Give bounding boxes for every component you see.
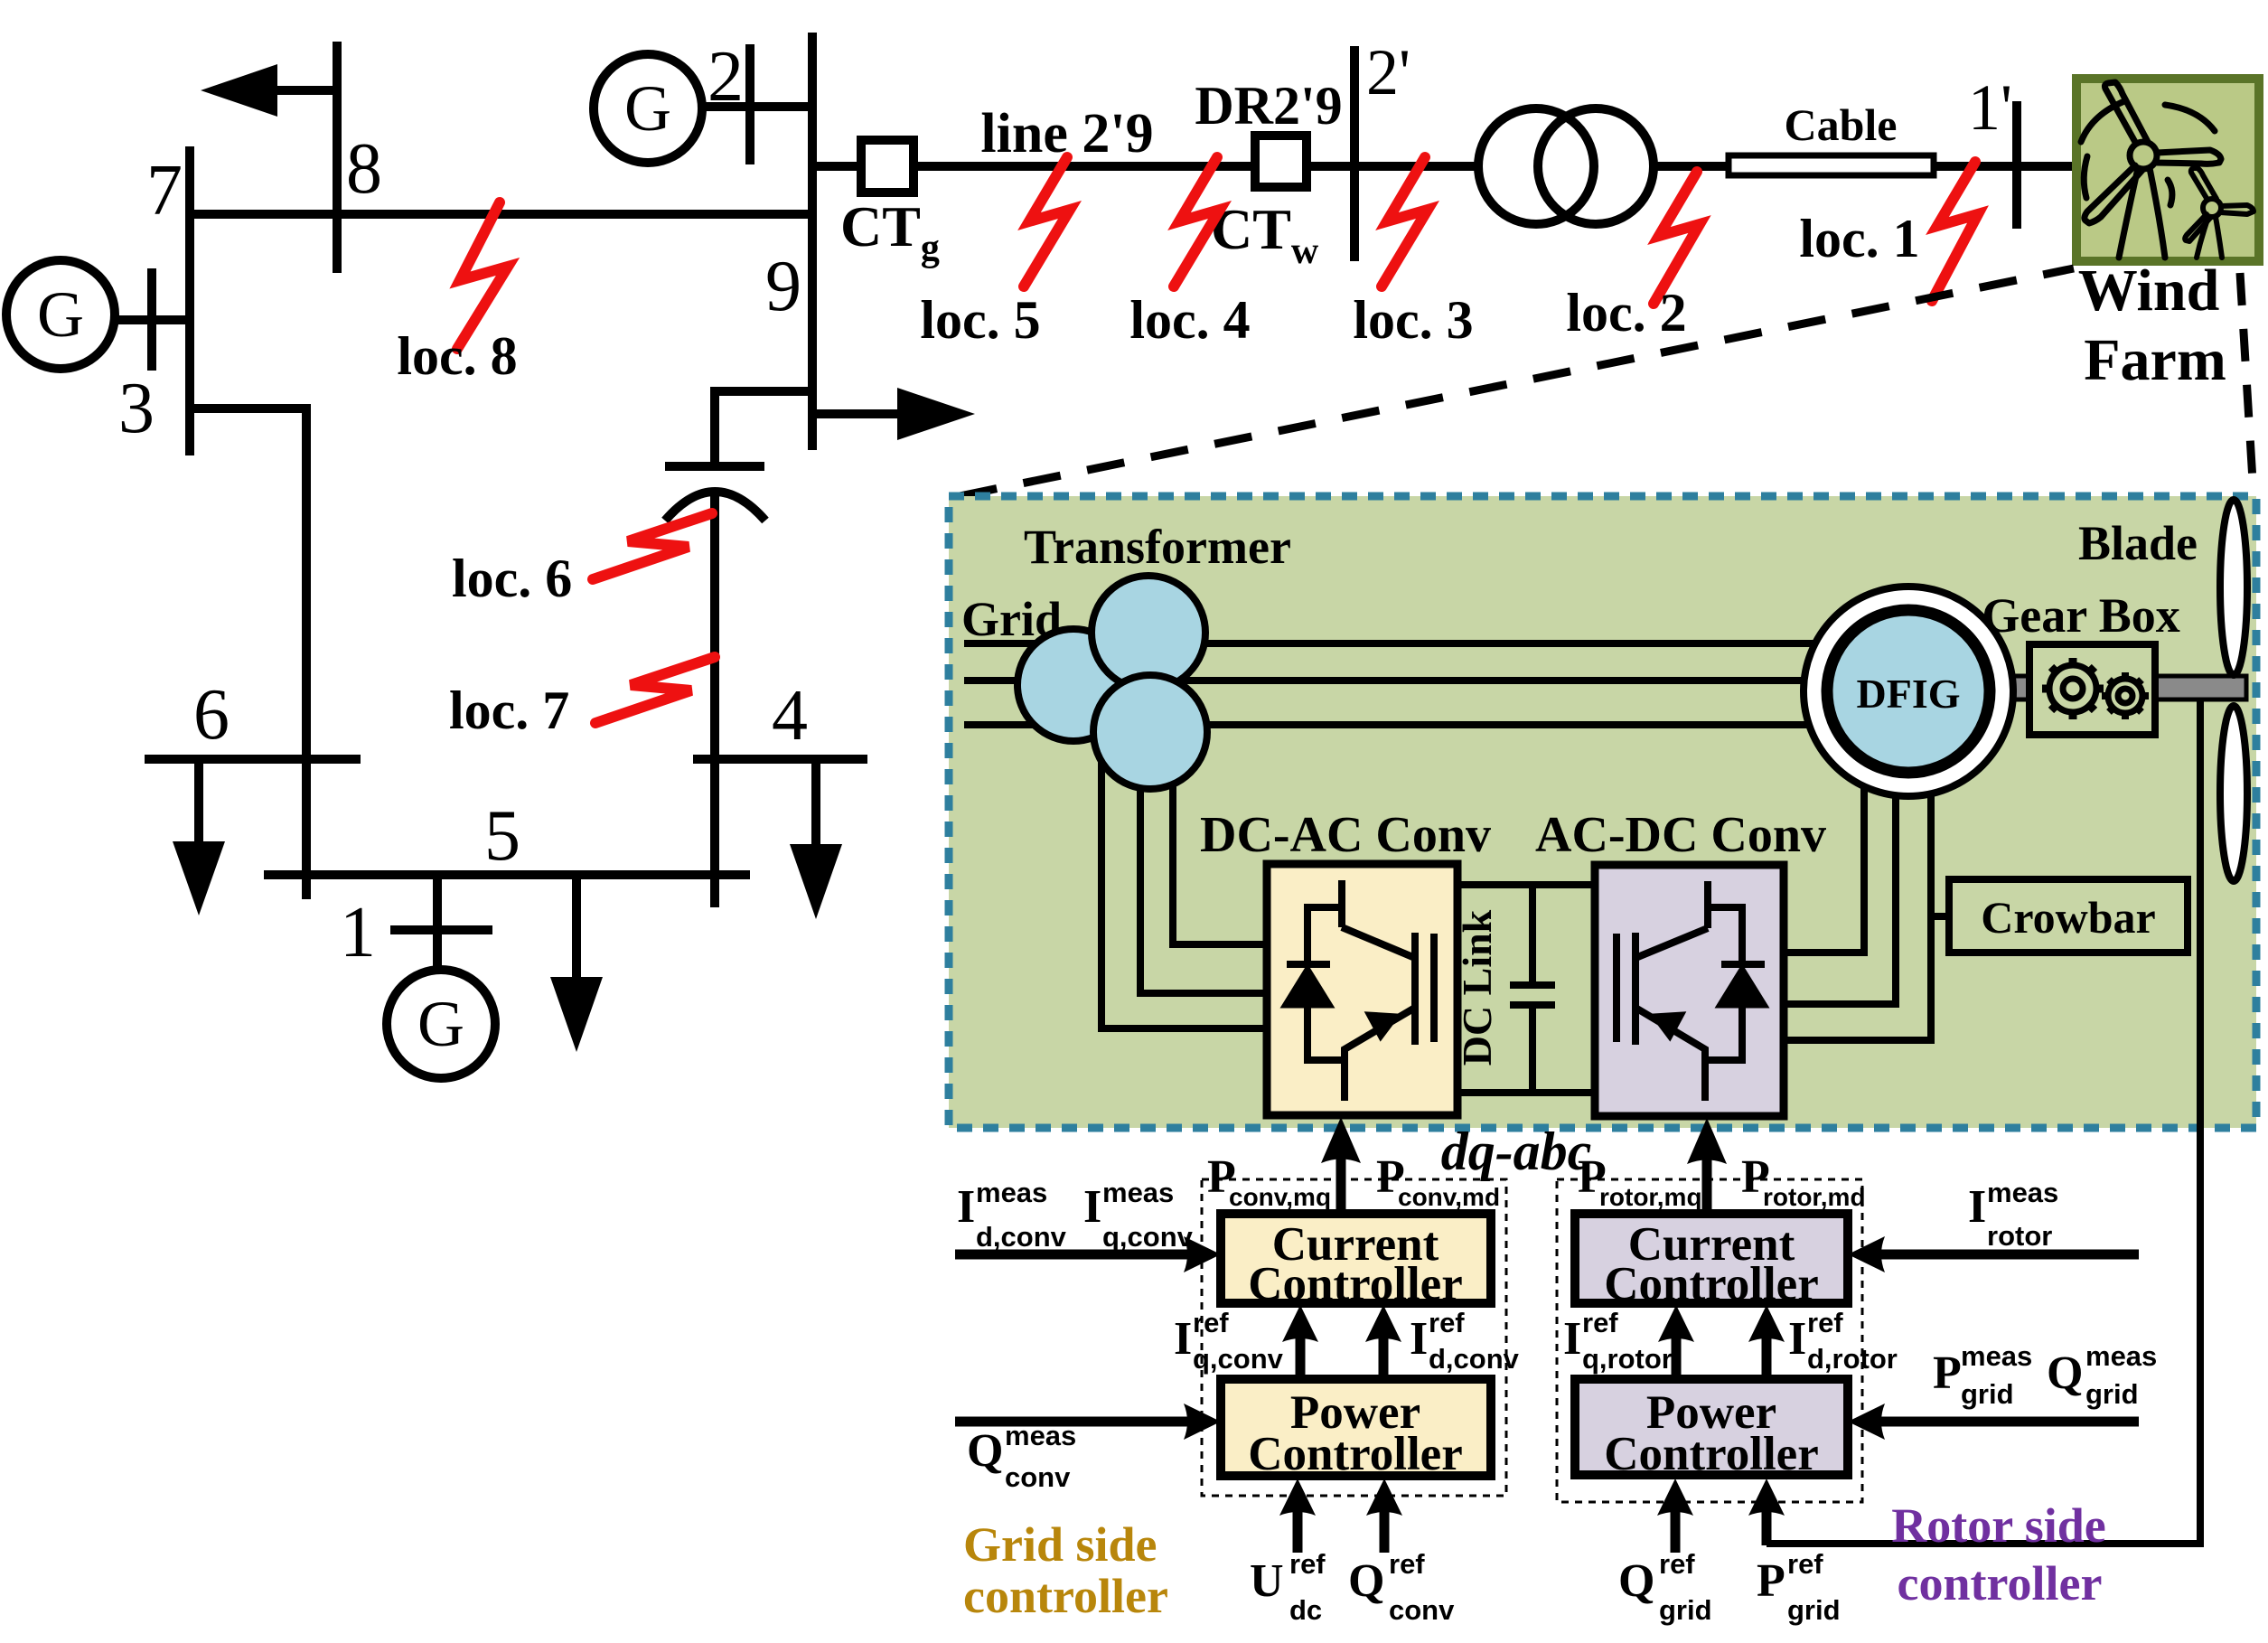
fault loc. 2 bolt (1654, 172, 1700, 304)
grid side dotted frame (1202, 1179, 1506, 1496)
dashed callout line left (960, 268, 2074, 496)
arrow Id ref rotor (1762, 1336, 1772, 1379)
generator G1 circle (387, 970, 495, 1078)
fault loc. 6 bolt (593, 513, 712, 579)
svg-text:I: I (1563, 1313, 1581, 1365)
cable symbol (1729, 155, 1934, 175)
svg-text:4: 4 (772, 676, 808, 756)
load at bus 5 wire (572, 875, 581, 979)
DFIG inner circle (1827, 610, 1990, 773)
DFIG outer circle (1804, 587, 2013, 796)
svg-text:1: 1 (340, 893, 376, 972)
arrow Pgrid ref feedback (1762, 1509, 1772, 1545)
svg-text:Cable: Cable (1785, 99, 1898, 150)
svg-text:meas: meas (1987, 1177, 2058, 1208)
bus 3 tick (147, 268, 156, 371)
DC link top rail (1457, 881, 1595, 888)
bus 1 tick (390, 925, 492, 934)
svg-text:I: I (1968, 1181, 1986, 1233)
svg-text:Controller: Controller (1604, 1258, 1818, 1310)
svg-text:U: U (1250, 1555, 1284, 1607)
crowbar stub (1931, 913, 1949, 920)
svg-text:I: I (1174, 1313, 1192, 1365)
svg-text:controller: controller (1898, 1556, 2103, 1610)
svg-text:dc: dc (1289, 1594, 1322, 1626)
svg-text:G: G (37, 278, 84, 351)
svg-text:5: 5 (484, 796, 520, 876)
svg-text:loc. 1: loc. 1 (1799, 209, 1919, 268)
bus 2' (1350, 46, 1359, 261)
svg-text:I: I (1083, 1181, 1101, 1233)
relay CTg box (861, 140, 914, 192)
wire bus9 bend to shunt (715, 391, 812, 467)
wind farm turbine large (2081, 82, 2221, 258)
svg-text:meas: meas (2085, 1340, 2157, 1372)
svg-text:meas: meas (1102, 1177, 1174, 1208)
svg-text:DR2'9: DR2'9 (1195, 76, 1342, 136)
svg-text:conv: conv (1389, 1594, 1455, 1626)
svg-text:2: 2 (708, 37, 744, 117)
svg-text:ref: ref (1289, 1548, 1326, 1580)
shunt capacitor arc plate (665, 492, 765, 521)
grid current controller box (1221, 1214, 1491, 1303)
svg-text:grid: grid (2085, 1378, 2139, 1410)
svg-text:DC Link: DC Link (1454, 909, 1500, 1066)
fault loc. 4 bolt (1174, 157, 1220, 286)
blade lower (2220, 706, 2247, 881)
fault loc. 8 bolt (457, 202, 508, 349)
DFIG rotor wire b (1784, 796, 1896, 1004)
arrow PQ meas into rotor power controller (1881, 1417, 2139, 1427)
svg-text:d,conv: d,conv (1429, 1343, 1520, 1375)
svg-text:loc. 3: loc. 3 (1353, 290, 1473, 350)
svg-text:rotor,md: rotor,md (1763, 1183, 1866, 1211)
arrow Qgrid ref (1671, 1509, 1681, 1553)
bus 8 (333, 42, 342, 273)
wire bus3 to line 3-6 (190, 408, 306, 899)
svg-text:meas: meas (976, 1177, 1047, 1208)
DC link bottom rail (1457, 1089, 1595, 1096)
svg-text:controller: controller (963, 1569, 1168, 1623)
bus 1' (2012, 101, 2021, 229)
svg-text:2': 2' (1366, 36, 1410, 108)
rotor side dotted frame (1557, 1179, 1862, 1502)
DC-AC converter box (1267, 864, 1457, 1115)
svg-text:7: 7 (146, 151, 183, 230)
svg-text:ref: ref (1429, 1307, 1465, 1338)
svg-text:loc. 7: loc. 7 (449, 681, 569, 740)
svg-text:Gear Box: Gear Box (1982, 588, 2179, 643)
svg-text:d,rotor: d,rotor (1807, 1343, 1898, 1375)
svg-text:loc. 4: loc. 4 (1129, 290, 1250, 350)
gear small (2102, 672, 2149, 719)
load at bus 4 wire (811, 759, 820, 846)
svg-text:Q: Q (967, 1425, 1003, 1477)
grid phase line c (964, 721, 1810, 728)
svg-text:I: I (957, 1181, 975, 1233)
DC link capacitor (1510, 885, 1555, 1093)
wire bus5 to bus1 (433, 875, 442, 970)
generator G2 circle (594, 54, 702, 163)
arrow controller to AC-DC (1702, 1157, 1712, 1214)
load at bus 6 arrowhead (173, 841, 225, 915)
svg-text:Blade: Blade (2078, 516, 2198, 570)
fault loc. 7 bolt (595, 657, 715, 723)
svg-text:G: G (624, 72, 671, 145)
svg-text:Q: Q (1618, 1555, 1654, 1607)
wind transformer circle top (1092, 576, 1205, 690)
svg-text:6: 6 (193, 675, 230, 755)
converter feed vertical b (1140, 741, 1267, 993)
svg-text:I: I (1410, 1313, 1428, 1365)
wire transformer to cable (1652, 162, 1729, 171)
shaft measurement line (1767, 696, 2200, 1544)
svg-text:Wind: Wind (2078, 258, 2220, 324)
load at bus 5 arrowhead (550, 977, 603, 1052)
svg-text:ref: ref (1787, 1548, 1823, 1580)
arrow Iq ref rotor (1672, 1336, 1682, 1379)
svg-text:Controller: Controller (1604, 1428, 1818, 1480)
converter feed vertical c (1101, 732, 1267, 1028)
svg-text:Farm: Farm (2084, 327, 2226, 393)
step-up transformer circles (1478, 108, 1594, 224)
arrow Id ref grid (1379, 1336, 1389, 1379)
wind farm box (2076, 79, 2259, 261)
svg-text:loc. 6: loc. 6 (452, 549, 572, 608)
arrow Iq ref grid (1296, 1336, 1306, 1379)
svg-text:Transformer: Transformer (1024, 520, 1291, 574)
arrow Id Iq meas into grid current controller (955, 1250, 1188, 1260)
DFIG rotor wire a (1784, 788, 1864, 953)
svg-text:3: 3 (118, 369, 155, 448)
svg-text:meas: meas (1005, 1420, 1076, 1451)
svg-text:Rotor side: Rotor side (1891, 1498, 2106, 1553)
wind farm turbine small (2185, 168, 2254, 258)
svg-text:DC-AC Conv: DC-AC Conv (1200, 807, 1491, 863)
svg-text:conv,md: conv,md (1398, 1183, 1500, 1211)
svg-text:d,conv: d,conv (976, 1221, 1067, 1253)
grid phase line a (964, 640, 1813, 647)
grid power controller box (1221, 1379, 1491, 1476)
svg-text:G: G (417, 988, 464, 1060)
wire shunt to bus4 to bus5 (710, 490, 719, 907)
svg-text:Controller: Controller (1248, 1258, 1462, 1310)
svg-text:q,conv: q,conv (1102, 1221, 1194, 1253)
bus 7 (185, 146, 194, 455)
wire 7-9 (190, 210, 812, 219)
svg-text:loc. 2: loc. 2 (1566, 283, 1686, 343)
DC-AC IGBT emitter arrow (1368, 1014, 1397, 1037)
shunt capacitor top plate (665, 462, 764, 471)
bus 6 (145, 755, 361, 764)
wind transformer circle left (1017, 629, 1129, 741)
DC-AC diode (1287, 961, 1330, 968)
svg-text:rotor,mq: rotor,mq (1599, 1183, 1702, 1211)
svg-text:1': 1' (1968, 71, 2012, 144)
line 2'9 wire (914, 162, 1255, 171)
svg-text:Q: Q (1348, 1555, 1384, 1607)
wire G3 to bus 3 (115, 315, 190, 324)
rotor current controller box (1575, 1214, 1848, 1303)
load at bus 9 wire (812, 409, 899, 418)
svg-text:Q: Q (2047, 1347, 2083, 1399)
arrow Qconv ref (1380, 1509, 1390, 1553)
wire bus9 to CTg (812, 162, 861, 171)
load at bus 9 arrowhead (897, 388, 975, 440)
svg-text:loc. 5: loc. 5 (920, 290, 1040, 350)
converter feed vertical a (1173, 750, 1267, 944)
fault loc. 3 bolt (1382, 157, 1428, 286)
svg-text:grid: grid (1787, 1594, 1841, 1626)
svg-text:loc. 8: loc. 8 (397, 326, 517, 386)
svg-text:P: P (1757, 1555, 1785, 1607)
load at bus 4 arrowhead (790, 844, 842, 919)
svg-text:ref: ref (1193, 1307, 1229, 1338)
svg-text:meas: meas (1961, 1340, 2032, 1372)
svg-text:ref: ref (1659, 1548, 1695, 1580)
rotor power controller box (1575, 1379, 1848, 1475)
AC-DC converter box (1595, 865, 1784, 1116)
arrow Irotor meas into rotor current controller (1881, 1250, 2139, 1260)
load at bus 6 wire (194, 759, 203, 843)
arrow Q meas into grid power controller (955, 1417, 1188, 1427)
drive shaft (2010, 676, 2246, 699)
fault loc. 5 bolt (1024, 157, 1070, 286)
svg-text:Grid side: Grid side (963, 1517, 1157, 1572)
wire cable to bus 1' (1934, 162, 2076, 171)
svg-text:rotor: rotor (1987, 1220, 2052, 1252)
wire G2 to bus 9 (702, 102, 812, 111)
svg-text:q,conv: q,conv (1193, 1343, 1284, 1375)
svg-text:P: P (1933, 1347, 1962, 1399)
svg-text:grid: grid (1961, 1378, 2014, 1410)
relay DR2'9 box (1255, 136, 1307, 187)
fault loc. 1 bolt (1932, 162, 1978, 301)
bus 5 (264, 870, 750, 879)
svg-text:AC-DC Conv: AC-DC Conv (1535, 807, 1826, 863)
dashed callout line right (2240, 273, 2254, 495)
svg-text:conv,mq: conv,mq (1229, 1183, 1331, 1211)
AC-DC IGBT emitter arrow (1654, 1014, 1682, 1037)
svg-text:ref: ref (1807, 1307, 1843, 1338)
bus 2 tick (745, 44, 754, 164)
gear box rect (2029, 644, 2155, 735)
svg-text:grid: grid (1659, 1594, 1712, 1626)
DC-AC IGBT (1307, 880, 1434, 1101)
wind transformer circle bottom (1093, 675, 1207, 789)
svg-text:Controller: Controller (1248, 1428, 1462, 1480)
AC-DC diode (1721, 961, 1765, 968)
load at bus 8 wire (276, 86, 337, 95)
crowbar box (1949, 879, 2188, 953)
arrow controller to DC-AC (1336, 1157, 1346, 1214)
wire DR2'9 to bus 2' (1307, 162, 1476, 171)
svg-text:q,rotor: q,rotor (1582, 1343, 1673, 1375)
bus 9 (808, 33, 817, 450)
blade upper (2220, 500, 2247, 675)
svg-text:conv: conv (1005, 1461, 1071, 1493)
AC-DC IGBT (1617, 881, 1742, 1101)
svg-text:8: 8 (346, 129, 382, 209)
svg-text:9: 9 (765, 247, 801, 326)
svg-text:I: I (1788, 1313, 1806, 1365)
load at bus 8 arrowhead (201, 64, 277, 117)
DFIG detail green box (949, 496, 2256, 1128)
arrow Udc ref (1293, 1509, 1303, 1553)
generator G3 circle (6, 260, 115, 369)
DFIG rotor wire c (1784, 793, 1931, 1040)
svg-text:dq-abc: dq-abc (1441, 1122, 1592, 1181)
svg-text:Crowbar: Crowbar (1981, 892, 2156, 943)
svg-text:ref: ref (1389, 1548, 1425, 1580)
gear big (2042, 658, 2104, 719)
bus 4 (693, 755, 867, 764)
svg-text:DFIG: DFIG (1857, 671, 1961, 717)
grid phase line b (964, 677, 1805, 684)
svg-text:ref: ref (1582, 1307, 1618, 1338)
